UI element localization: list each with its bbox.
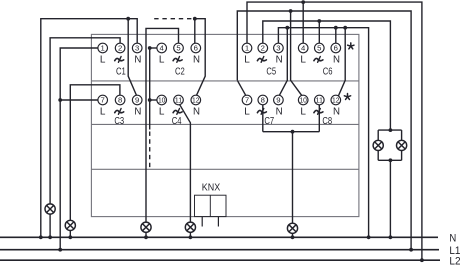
junction dot wire A at N bus bbox=[39, 235, 43, 239]
svg-text:12: 12 bbox=[332, 96, 340, 105]
squiggle output symbol C1 bbox=[115, 57, 124, 63]
wire drop to circle 6 bbox=[194, 19, 196, 44]
svg-text:N: N bbox=[276, 55, 283, 66]
svg-text:11: 11 bbox=[175, 96, 183, 105]
terminal 11 of C8 bbox=[315, 95, 325, 105]
terminal 8 of C3 bbox=[115, 95, 125, 105]
junction dot wire H d1 bbox=[285, 26, 289, 30]
wire G drop to circle 5r bbox=[318, 21, 320, 43]
label L C4 bbox=[159, 107, 165, 118]
label L C3 bbox=[100, 107, 106, 118]
svg-text:KNX: KNX bbox=[202, 182, 221, 193]
terminal 7 of C7 bbox=[242, 95, 252, 105]
L2 bus rail bbox=[0, 259, 440, 261]
terminal 12 of C4 bbox=[191, 95, 201, 105]
wire N feeder C4 with diagonal bbox=[195, 19, 205, 96]
svg-text:N: N bbox=[193, 107, 200, 118]
terminal 3 of C5 bbox=[274, 43, 284, 53]
svg-text:5: 5 bbox=[176, 44, 180, 53]
wire F diagonal to circle 7r bbox=[237, 80, 246, 95]
squiggle output symbol C2 bbox=[173, 57, 182, 63]
L1 bus rail bbox=[0, 249, 439, 251]
label C1 bbox=[116, 65, 126, 77]
svg-text:C6: C6 bbox=[323, 65, 333, 77]
svg-text:L: L bbox=[159, 55, 165, 66]
label C7 bbox=[264, 115, 274, 127]
wire G to N bus bbox=[389, 160, 391, 237]
junction dot wire F bbox=[289, 9, 293, 13]
lamp E3 on wire U bbox=[141, 222, 151, 232]
svg-text:C5: C5 bbox=[266, 65, 276, 77]
terminal 2 of C5 bbox=[258, 43, 268, 53]
svg-text:4: 4 bbox=[160, 44, 165, 53]
label L C5 bbox=[244, 55, 250, 66]
svg-text:5: 5 bbox=[317, 44, 321, 53]
svg-text:N: N bbox=[134, 107, 141, 118]
svg-text:L: L bbox=[300, 107, 306, 118]
wire C4 output diagonal bbox=[180, 104, 191, 222]
label N C5 bbox=[276, 55, 283, 66]
actuator device outline bbox=[91, 34, 359, 216]
device internal divider 3 bbox=[91, 168, 359, 170]
wire H (N feed C5-C8) bbox=[278, 28, 368, 238]
wire F (L1 feed C7/C8) bbox=[237, 11, 411, 250]
squiggle output symbol C3 bbox=[115, 109, 124, 115]
svg-text:C1: C1 bbox=[116, 65, 126, 77]
svg-text:11: 11 bbox=[316, 96, 324, 105]
wire E (L2 feed C5/C6) bbox=[247, 2, 422, 260]
squiggle output symbol C5 bbox=[257, 57, 266, 63]
svg-text:4: 4 bbox=[301, 44, 306, 53]
junction dot wire H at N bus bbox=[367, 235, 371, 239]
svg-text:L: L bbox=[100, 55, 106, 66]
junction dot wire D at N bus bbox=[68, 235, 72, 239]
C7/C8 connector bar bbox=[263, 131, 320, 133]
junction dot above circle 6 bbox=[193, 17, 197, 21]
svg-text:2: 2 bbox=[118, 44, 122, 53]
wire D (C3 output to lamp) bbox=[70, 85, 120, 221]
terminal 9 of C7 bbox=[274, 95, 284, 105]
terminal 1 of C1 bbox=[98, 43, 108, 53]
lamp E1 on wire B bbox=[45, 204, 55, 214]
junction dot wire G bbox=[317, 19, 321, 23]
junction dot wire E at L2 bus bbox=[420, 258, 424, 262]
lamp pair branch bottom bbox=[378, 159, 401, 161]
terminal 12 of C8 bbox=[331, 95, 341, 105]
lamp E4 on C4 output bbox=[185, 222, 195, 232]
N bus rail bbox=[0, 236, 438, 238]
KNX stub 1 bbox=[201, 217, 203, 227]
svg-text:N: N bbox=[449, 233, 456, 245]
wire H drop to circle 12r bbox=[338, 28, 345, 96]
lamp E5 parallel left bbox=[373, 140, 383, 150]
wire C stub to circle 7 bbox=[60, 99, 98, 101]
terminal 10 of C4 bbox=[157, 95, 167, 105]
svg-text:C7: C7 bbox=[264, 115, 274, 127]
lamp pair right branch bbox=[401, 130, 403, 140]
junction dot wire H d3 bbox=[343, 26, 347, 30]
label N C7 bbox=[276, 107, 283, 118]
feeder dashed continuation bbox=[149, 132, 151, 170]
terminal 6 of C2 bbox=[191, 43, 201, 53]
svg-text:L: L bbox=[300, 55, 306, 66]
lamp E7 on C7/C8 output bbox=[287, 223, 297, 233]
junction dot wire C at L1 bus bbox=[58, 248, 62, 252]
svg-text:7: 7 bbox=[245, 96, 249, 105]
svg-text:9: 9 bbox=[135, 96, 139, 105]
asterisk row2 bbox=[344, 94, 350, 100]
terminal 3 of C1 bbox=[132, 43, 142, 53]
label N C4 bbox=[193, 107, 200, 118]
label N bbox=[449, 233, 456, 245]
wire F drop to circle 10r bbox=[291, 11, 302, 96]
label L C6 bbox=[300, 55, 306, 66]
wire E drop to circle 4r bbox=[302, 2, 304, 43]
junction dot wire G at N bus bbox=[389, 235, 393, 239]
terminal 1 of C5 bbox=[242, 43, 252, 53]
label C8 bbox=[322, 115, 332, 127]
junction dot pair bottom bbox=[389, 158, 393, 162]
junction dot wire U at N bus bbox=[144, 235, 148, 239]
feeder vertical solid part bbox=[149, 48, 151, 130]
terminal 4 of C6 bbox=[298, 43, 308, 53]
svg-text:2: 2 bbox=[261, 44, 265, 53]
wire C7 output leg bbox=[262, 105, 264, 132]
svg-text:L: L bbox=[159, 107, 165, 118]
terminal 6 of C6 bbox=[331, 43, 341, 53]
svg-text:7: 7 bbox=[101, 96, 105, 105]
svg-text:3: 3 bbox=[135, 44, 139, 53]
svg-text:L: L bbox=[244, 107, 250, 118]
squiggle output symbol C7 bbox=[257, 109, 266, 115]
terminal 8 of C7 bbox=[258, 95, 268, 105]
junction dot wire C row2 bbox=[58, 98, 62, 102]
label C3 bbox=[114, 115, 124, 127]
label N C8 bbox=[333, 107, 340, 118]
svg-text:N: N bbox=[333, 107, 340, 118]
svg-text:8: 8 bbox=[118, 96, 122, 105]
terminal 5 of C2 bbox=[174, 43, 184, 53]
squiggle output symbol C6 bbox=[314, 57, 323, 63]
terminal 4 of C2 bbox=[157, 43, 167, 53]
svg-text:C4: C4 bbox=[172, 115, 182, 127]
terminal 9 of C3 bbox=[132, 95, 142, 105]
wire C4 lamp to N bus bbox=[189, 232, 191, 237]
label L1 bbox=[449, 245, 460, 257]
asterisk row1 bbox=[348, 43, 354, 49]
svg-text:L: L bbox=[100, 107, 106, 118]
svg-text:12: 12 bbox=[192, 96, 200, 105]
lamp E6 parallel right bbox=[397, 140, 407, 150]
squiggle output symbol C4 bbox=[173, 109, 182, 115]
wire H drop to circle 6r bbox=[335, 28, 337, 44]
svg-text:9: 9 bbox=[276, 96, 280, 105]
KNX connector box bbox=[195, 195, 227, 216]
label C6 bbox=[323, 65, 333, 77]
junction dot pair top bbox=[389, 128, 393, 132]
svg-text:3: 3 bbox=[276, 44, 280, 53]
wire B (C1 output to lamp) bbox=[50, 38, 120, 204]
junction dot feeder at circle 10 bbox=[148, 98, 152, 102]
feeder stub to circle 10 bbox=[150, 99, 157, 101]
lamp pair left lower bbox=[377, 151, 379, 161]
label L C7 bbox=[244, 107, 250, 118]
terminal 5 of C6 bbox=[315, 43, 325, 53]
wire C (L1 feed C1/C3) bbox=[60, 48, 98, 250]
feeder stub to circle 4 bbox=[150, 47, 157, 49]
svg-text:L: L bbox=[244, 55, 250, 66]
device internal divider 2 bbox=[91, 123, 359, 125]
dashed N link segment bbox=[154, 18, 195, 20]
label L2 bbox=[449, 255, 460, 267]
svg-text:1: 1 bbox=[245, 44, 249, 53]
svg-text:8: 8 bbox=[261, 96, 265, 105]
label N C3 bbox=[134, 107, 141, 118]
KNX label bbox=[202, 182, 221, 193]
svg-text:10: 10 bbox=[158, 96, 166, 105]
lamp pair right lower bbox=[401, 151, 403, 161]
wire C8 output leg bbox=[318, 105, 320, 132]
label L C2 bbox=[159, 55, 165, 66]
terminal 2 of C1 bbox=[115, 43, 125, 53]
wire G (C5/C6 outputs to lamps) bbox=[263, 21, 391, 130]
svg-text:1: 1 bbox=[101, 44, 105, 53]
junction dot wire B at N bus bbox=[48, 235, 52, 239]
lamp pair branch top bbox=[378, 129, 401, 131]
terminal 10 of C8 bbox=[298, 95, 308, 105]
label N C6 bbox=[333, 55, 340, 66]
terminal 7 of C3 bbox=[98, 95, 108, 105]
svg-text:N: N bbox=[276, 107, 283, 118]
svg-text:10: 10 bbox=[299, 96, 307, 105]
svg-text:N: N bbox=[134, 55, 141, 66]
terminal 11 of C4 bbox=[174, 95, 184, 105]
label N C1 bbox=[134, 55, 141, 66]
svg-text:N: N bbox=[193, 55, 200, 66]
wire B lamp to N bus bbox=[49, 214, 51, 237]
svg-text:6: 6 bbox=[194, 44, 198, 53]
wire H drop to circle 9r bbox=[279, 28, 287, 96]
junction dot C4 at N bus bbox=[189, 235, 193, 239]
junction dot feeder at circle 4 bbox=[148, 46, 152, 50]
svg-text:N: N bbox=[333, 55, 340, 66]
wire U lamp to N bus bbox=[145, 232, 147, 237]
label L C8 bbox=[300, 107, 306, 118]
lamp pair left branch bbox=[377, 130, 379, 140]
label C4 bbox=[172, 115, 182, 127]
wire bar to lamp bbox=[292, 132, 294, 224]
svg-text:L2: L2 bbox=[449, 255, 460, 267]
wire lamp to N bus bbox=[292, 233, 294, 237]
svg-text:6: 6 bbox=[334, 44, 338, 53]
svg-text:C2: C2 bbox=[175, 65, 185, 77]
junction dot connector bar bbox=[291, 130, 295, 134]
label C2 bbox=[175, 65, 185, 77]
wire A drop to circle 9 with diagonal bbox=[128, 19, 136, 96]
junction dot wire E bbox=[301, 0, 305, 4]
label N C2 bbox=[193, 55, 200, 66]
junction dot C7/C8 at N bus bbox=[291, 235, 295, 239]
device internal divider 1 bbox=[91, 80, 359, 82]
junction dot wire F at L1 bus bbox=[409, 248, 413, 252]
squiggle output symbol C8 bbox=[314, 109, 323, 115]
junction dot wire H d2 bbox=[334, 26, 338, 30]
junction dot wire A bbox=[126, 17, 130, 21]
wire D lamp to N bus bbox=[69, 231, 71, 238]
label C5 bbox=[266, 65, 276, 77]
svg-text:C8: C8 bbox=[322, 115, 332, 127]
svg-text:C3: C3 bbox=[114, 115, 124, 127]
wire A (N feed C1/C3) horizontal+vertical bbox=[41, 19, 137, 238]
KNX stub 2 bbox=[217, 217, 219, 227]
wire U (C2 output to lamp) bbox=[146, 28, 179, 222]
label L C1 bbox=[100, 55, 106, 66]
lamp E2 on wire D bbox=[65, 220, 75, 230]
